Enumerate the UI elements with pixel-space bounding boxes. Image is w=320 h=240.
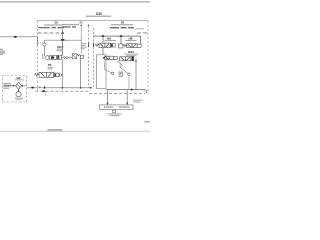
- relief valve w/ spring: [72, 54, 83, 59]
- pump suction wire: [3, 85, 16, 87]
- pump text: [15, 98, 24, 99]
- pressure gauge: [38, 40, 46, 56]
- return drain stubs: [39, 86, 41, 88]
- W10 solenoid dark: [132, 56, 134, 61]
- directional valve W10: [120, 57, 131, 61]
- directional valve H8: [119, 44, 142, 48]
- pump unit dashed box: [3, 76, 27, 103]
- supply wire from left: [0, 37, 37, 46]
- tank note text: [108, 113, 122, 116]
- manifold block rectangle: [97, 55, 107, 89]
- junction on bottom dashed: [42, 90, 45, 92]
- check valve: [62, 56, 73, 59]
- filter diamond: [16, 82, 22, 89]
- pump circle: [16, 92, 21, 97]
- port symbol a: [80, 24, 82, 26]
- return manifold wire right: [106, 89, 144, 91]
- return wire end curve: [144, 90, 148, 94]
- dashed pilot verticals: [88, 26, 90, 88]
- svg-text:[#]: [#]: [119, 71, 123, 75]
- drain to tank vertical: [107, 90, 109, 104]
- svg-text:W12: W12: [57, 45, 64, 49]
- link wire to right: [118, 61, 123, 67]
- reducing valve W12 body: [49, 55, 61, 59]
- reservoir tank: [99, 105, 133, 110]
- pump note text: [4, 83, 12, 89]
- note text block mid: [81, 43, 87, 49]
- W10 drain vertical: [135, 59, 137, 90]
- return wire end node: [90, 87, 92, 89]
- H9 feed vertical: [102, 36, 104, 43]
- junction nodes on return: [44, 87, 46, 89]
- bottom title text: [48, 129, 63, 131]
- port stub left: [43, 54, 44, 58]
- filter circle: [46, 56, 50, 60]
- svg-text:A1: A1: [79, 20, 83, 24]
- svg-text:D10: D10: [96, 12, 102, 16]
- inner dashed partition top: [38, 32, 63, 34]
- pilot wire: [44, 40, 81, 54]
- bottom right label: [145, 121, 151, 123]
- arrowhead: [107, 103, 109, 105]
- measuring circle right: [128, 73, 130, 75]
- H8 feed verticals: [120, 36, 122, 44]
- enclosure D10 dashed box: [35, 21, 148, 94]
- cooler note text: [133, 100, 143, 103]
- directional valve P5: [35, 72, 59, 77]
- left port note text: [0, 49, 6, 55]
- junction node on supply: [14, 36, 17, 38]
- drain to tank right: [126, 90, 128, 104]
- tank label right: [119, 106, 130, 108]
- drain stub below box: [45, 91, 47, 95]
- svg-text:D9: D9: [55, 20, 59, 24]
- drain vertical B: [80, 59, 82, 88]
- H9 out vertical: [102, 48, 104, 56]
- wires to circle right: [120, 62, 128, 73]
- return manifold wire left: [27, 87, 91, 89]
- gauge point circle mid: [111, 72, 113, 74]
- valve on manifold: [105, 56, 118, 59]
- port symbol b: [88, 24, 90, 26]
- supply header wire H9/H8: [93, 35, 141, 37]
- tank label left: [104, 106, 113, 108]
- junction node pump line: [31, 87, 34, 89]
- valve dark spool: [51, 56, 54, 58]
- drain vertical A: [61, 60, 63, 88]
- directional valve H9: [95, 43, 115, 47]
- junction node: [102, 35, 104, 37]
- valve P5 arrows: [41, 73, 45, 77]
- svg-text:P5: P5: [48, 63, 52, 67]
- label D10 subtitle: [86, 16, 111, 17]
- bottom frame line: [0, 131, 150, 132]
- supply vertical to valve train: [61, 30, 63, 56]
- pilot junction node: [61, 39, 65, 41]
- pilot port dark segments: [88, 43, 90, 48]
- breather fitting: [113, 110, 116, 113]
- svg-text:B4: B4: [121, 20, 125, 24]
- top frame line: [0, 1, 150, 3]
